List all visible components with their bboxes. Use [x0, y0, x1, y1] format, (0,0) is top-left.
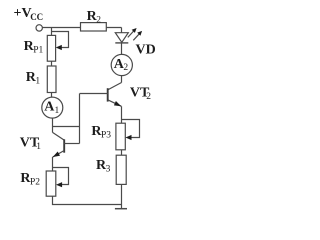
ground	[115, 208, 127, 210]
wire RP1-R1	[51, 61, 53, 66]
svg-text:1: 1	[55, 106, 60, 116]
resistor R1	[47, 66, 56, 93]
svg-text:P3: P3	[101, 130, 111, 140]
svg-text:+V: +V	[14, 6, 32, 21]
resistor R2	[81, 23, 107, 31]
wire VT2 emitter to RP3	[121, 106, 123, 123]
resistor R3	[116, 155, 126, 184]
svg-text:2: 2	[96, 15, 101, 25]
svg-text:2: 2	[123, 63, 128, 73]
wire VT1 emitter to RP2	[52, 157, 54, 171]
wire RP3-R3	[121, 150, 123, 155]
svg-text:P2: P2	[30, 177, 40, 187]
terminal +Vcc	[36, 25, 42, 31]
wire collector-base tie	[53, 126, 80, 128]
wire R2 to VD	[121, 28, 123, 33]
potentiometer RP1	[47, 35, 55, 61]
potentiometer RP3	[116, 123, 125, 150]
wire R1-A1	[51, 93, 53, 98]
svg-text:1: 1	[35, 77, 40, 87]
potentiometer RP2	[46, 171, 56, 196]
wire top rail	[42, 27, 121, 29]
node +Vcc label	[14, 6, 44, 22]
svg-text:P1: P1	[33, 45, 43, 55]
wire mirror base line	[79, 94, 81, 144]
wire A2 to VT2 collector	[121, 76, 123, 83]
wire VD to A2	[121, 43, 123, 55]
wire R3 to ground	[121, 184, 123, 208]
svg-text:1: 1	[36, 142, 41, 152]
wire RP1 top drop	[51, 28, 53, 36]
ammeter A2	[111, 54, 132, 75]
LED VD	[115, 33, 128, 43]
transistor VT1	[53, 132, 65, 140]
transistor VT2	[108, 83, 122, 90]
svg-text:VD: VD	[136, 43, 156, 58]
wire A1 to VT1 collector	[52, 118, 54, 132]
svg-text:2: 2	[146, 92, 151, 102]
wire RP2 bottom rail	[53, 196, 122, 204]
ammeter A1	[42, 97, 63, 118]
svg-text:CC: CC	[30, 12, 43, 22]
svg-text:3: 3	[106, 164, 111, 174]
